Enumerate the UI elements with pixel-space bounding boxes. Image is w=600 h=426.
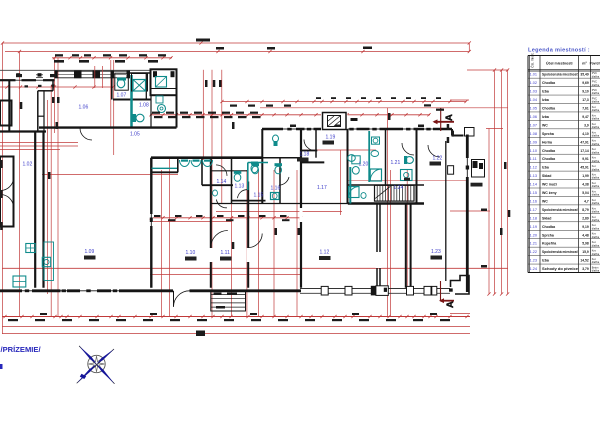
svg-text:dlažba: dlažba bbox=[592, 109, 600, 112]
svg-text:Izba: Izba bbox=[542, 98, 549, 102]
svg-text:dlažba: dlažba bbox=[592, 219, 600, 222]
svg-text:dlažba: dlažba bbox=[592, 92, 600, 95]
svg-text:1.07: 1.07 bbox=[530, 123, 537, 127]
svg-text:4,38: 4,38 bbox=[582, 183, 589, 187]
svg-text:1.19: 1.19 bbox=[530, 225, 537, 229]
svg-text:4,48: 4,48 bbox=[582, 233, 589, 237]
svg-text:Spoločenská miestnosť: Spoločenská miestnosť bbox=[542, 208, 578, 212]
svg-text:1.11: 1.11 bbox=[221, 250, 231, 256]
svg-text:1.13: 1.13 bbox=[530, 174, 537, 178]
svg-text:1.12: 1.12 bbox=[530, 166, 537, 170]
svg-text:dlažba: dlažba bbox=[592, 236, 600, 239]
svg-text:1.23: 1.23 bbox=[431, 249, 441, 255]
svg-text:1.13: 1.13 bbox=[235, 184, 245, 190]
svg-text:2,89: 2,89 bbox=[582, 216, 589, 220]
svg-text:dlažba: dlažba bbox=[592, 270, 600, 273]
svg-text:1.12: 1.12 bbox=[320, 250, 330, 256]
svg-text:dlažba: dlažba bbox=[592, 185, 600, 188]
svg-text:1.06: 1.06 bbox=[530, 115, 537, 119]
svg-text:dlažba: dlažba bbox=[592, 194, 600, 197]
svg-text:dlažba: dlažba bbox=[592, 168, 600, 171]
svg-text:17,3: 17,3 bbox=[582, 98, 589, 102]
svg-text:Izba: Izba bbox=[542, 90, 549, 94]
svg-text:3,9: 3,9 bbox=[584, 123, 589, 127]
svg-text:Izba: Izba bbox=[542, 115, 549, 119]
svg-text:1.20: 1.20 bbox=[530, 233, 537, 237]
svg-text:Spoločenská miestnosť: Spoločenská miestnosť bbox=[542, 250, 578, 254]
svg-text:dlažba: dlažba bbox=[592, 160, 600, 163]
svg-text:A: A bbox=[445, 301, 456, 308]
svg-text:dlažba: dlažba bbox=[592, 151, 600, 154]
svg-text:1.08: 1.08 bbox=[530, 132, 537, 136]
svg-text:Izba: Izba bbox=[542, 259, 549, 263]
svg-text:5,04: 5,04 bbox=[582, 191, 589, 195]
svg-text:1.17: 1.17 bbox=[317, 185, 327, 191]
svg-text:Chodba: Chodba bbox=[542, 157, 555, 161]
svg-text:7,61: 7,61 bbox=[582, 107, 589, 111]
svg-text:1.10: 1.10 bbox=[186, 250, 196, 256]
svg-text:1.18: 1.18 bbox=[300, 152, 310, 158]
svg-text:WC ženy: WC ženy bbox=[542, 191, 557, 195]
svg-text:/PRÍZEMIE/: /PRÍZEMIE/ bbox=[1, 345, 42, 354]
svg-text:dlažba: dlažba bbox=[592, 75, 600, 78]
svg-text:1.02: 1.02 bbox=[23, 162, 33, 168]
svg-text:dlažba: dlažba bbox=[592, 143, 600, 146]
svg-text:1.01: 1.01 bbox=[530, 73, 537, 77]
svg-text:Chodba: Chodba bbox=[542, 149, 555, 153]
svg-text:1.23: 1.23 bbox=[530, 259, 537, 263]
svg-text:4,7: 4,7 bbox=[584, 199, 589, 203]
svg-text:Čís. miest.: Čís. miest. bbox=[530, 53, 535, 68]
svg-text:Kúpeľňa: Kúpeľňa bbox=[542, 242, 556, 246]
svg-text:1.22: 1.22 bbox=[433, 156, 443, 162]
svg-text:WC: WC bbox=[542, 123, 548, 127]
svg-text:1.20: 1.20 bbox=[359, 162, 369, 168]
svg-text:A: A bbox=[444, 114, 455, 121]
svg-text:Sklad: Sklad bbox=[542, 174, 551, 178]
svg-text:Izba: Izba bbox=[542, 166, 549, 170]
svg-text:1.14: 1.14 bbox=[217, 179, 227, 185]
svg-text:dlažba: dlažba bbox=[592, 134, 600, 137]
svg-text:dlažba: dlažba bbox=[592, 177, 600, 180]
svg-text:1.02: 1.02 bbox=[530, 81, 537, 85]
svg-text:47,91: 47,91 bbox=[580, 140, 588, 144]
svg-text:1.17: 1.17 bbox=[530, 208, 537, 212]
svg-text:9,69: 9,69 bbox=[582, 81, 589, 85]
svg-text:Sprcha: Sprcha bbox=[542, 132, 554, 136]
svg-text:Chodba: Chodba bbox=[542, 225, 555, 229]
svg-text:Spoločenská miestnosť: Spoločenská miestnosť bbox=[542, 73, 578, 77]
svg-text:Povrch: Povrch bbox=[590, 62, 600, 66]
svg-text:1.15: 1.15 bbox=[254, 193, 264, 199]
svg-text:3,79: 3,79 bbox=[582, 267, 589, 271]
svg-text:1.05: 1.05 bbox=[530, 107, 537, 111]
svg-text:1.24: 1.24 bbox=[394, 185, 404, 191]
svg-text:dlažba: dlažba bbox=[592, 101, 600, 104]
svg-text:9,19: 9,19 bbox=[582, 225, 589, 229]
svg-text:1.09: 1.09 bbox=[85, 249, 95, 255]
svg-text:45,91: 45,91 bbox=[580, 166, 588, 170]
svg-text:9,10: 9,10 bbox=[582, 90, 589, 94]
svg-text:1.06: 1.06 bbox=[79, 105, 89, 111]
svg-text:8,79: 8,79 bbox=[582, 208, 589, 212]
svg-text:dlažba: dlažba bbox=[592, 202, 600, 205]
svg-text:Sklad: Sklad bbox=[542, 216, 551, 220]
svg-text:1.08: 1.08 bbox=[139, 103, 149, 109]
svg-text:dlažba: dlažba bbox=[592, 118, 600, 121]
svg-text:4,10: 4,10 bbox=[582, 132, 589, 136]
svg-text:1.11: 1.11 bbox=[530, 157, 537, 161]
svg-text:Sprcha: Sprcha bbox=[542, 233, 554, 237]
svg-text:5,98: 5,98 bbox=[582, 242, 589, 246]
svg-text:WC muži: WC muži bbox=[542, 183, 557, 187]
svg-text:1.10: 1.10 bbox=[530, 149, 537, 153]
svg-text:1.19: 1.19 bbox=[326, 135, 336, 141]
svg-text:14,52: 14,52 bbox=[580, 259, 588, 263]
svg-text:9,91: 9,91 bbox=[582, 157, 589, 161]
svg-text:1.16: 1.16 bbox=[271, 186, 281, 192]
svg-text:1.03: 1.03 bbox=[530, 90, 537, 94]
svg-text:17,14: 17,14 bbox=[580, 149, 588, 153]
svg-text:1.21: 1.21 bbox=[530, 242, 537, 246]
svg-text:dlažba: dlažba bbox=[592, 244, 600, 247]
svg-text:1.09: 1.09 bbox=[530, 140, 537, 144]
svg-text:1.21: 1.21 bbox=[391, 160, 401, 166]
svg-text:1.07: 1.07 bbox=[117, 93, 127, 99]
svg-text:dlažba: dlažba bbox=[592, 126, 600, 129]
svg-text:1.05: 1.05 bbox=[130, 132, 140, 138]
svg-text:15,9: 15,9 bbox=[582, 250, 589, 254]
svg-text:Chodba: Chodba bbox=[542, 107, 555, 111]
svg-text:1,99: 1,99 bbox=[582, 174, 589, 178]
svg-text:dlažba: dlažba bbox=[592, 261, 600, 264]
svg-text:Herňa: Herňa bbox=[542, 140, 552, 144]
svg-text:WC: WC bbox=[542, 199, 548, 203]
svg-text:dlažba: dlažba bbox=[592, 253, 600, 256]
svg-text:Schody do pivnice: Schody do pivnice bbox=[542, 267, 578, 271]
svg-text:1.15: 1.15 bbox=[530, 191, 537, 195]
svg-text:dlažba: dlažba bbox=[592, 211, 600, 214]
svg-text:9,47: 9,47 bbox=[582, 115, 589, 119]
svg-text:Účel miestností: Účel miestností bbox=[546, 61, 574, 66]
svg-text:1.22: 1.22 bbox=[530, 250, 537, 254]
svg-text:1.18: 1.18 bbox=[530, 216, 537, 220]
svg-text:dlažba: dlažba bbox=[592, 84, 600, 87]
svg-text:Legenda miestností :: Legenda miestností : bbox=[528, 48, 590, 54]
svg-text:1.14: 1.14 bbox=[530, 183, 537, 187]
svg-text:dlažba: dlažba bbox=[592, 227, 600, 230]
svg-text:Chodba: Chodba bbox=[542, 81, 555, 85]
svg-text:1.16: 1.16 bbox=[530, 199, 537, 203]
svg-text:1.04: 1.04 bbox=[530, 98, 537, 102]
svg-text:35,49: 35,49 bbox=[580, 73, 588, 77]
svg-text:1.24: 1.24 bbox=[530, 267, 537, 271]
